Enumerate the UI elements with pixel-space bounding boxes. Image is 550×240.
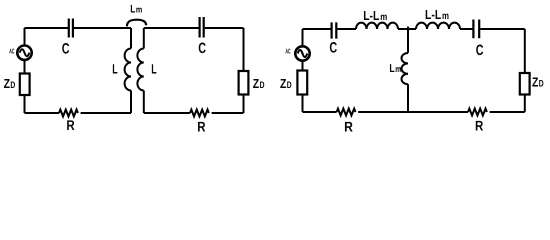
capacitor C (loop2 top)	[200, 17, 204, 38]
svg-text:D: D	[287, 80, 292, 91]
AC source V2 circle	[295, 46, 309, 60]
inductor L-Lm (series, left)	[356, 23, 398, 29]
inductor Lm (shunt)	[401, 53, 408, 84]
wire right side upper (right circuit)	[524, 29, 526, 73]
wire bottom middle segment (right circuit)	[358, 111, 468, 113]
svg-text:Z: Z	[280, 76, 286, 91]
svg-text:AC: AC	[9, 49, 14, 56]
resistor R (T-model right)	[468, 109, 487, 116]
wire left side lower (right circuit)	[302, 95, 304, 113]
wire right side lower (right circuit)	[524, 95, 526, 113]
wire loop2 left side lower	[143, 91, 145, 114]
svg-text:L: L	[389, 63, 394, 75]
wire loop1 left side lower	[24, 95, 26, 113]
mutual coupling arc Lm	[127, 20, 146, 27]
wire loop1 left side upper	[24, 28, 26, 46]
wire left side upper (right circuit)	[302, 29, 304, 47]
svg-text:D: D	[10, 80, 15, 91]
svg-text:L-L: L-L	[425, 7, 441, 22]
node T-junction top / shunt wire upper	[407, 27, 409, 53]
wire coil2 to cap4	[460, 28, 473, 30]
svg-text:L: L	[130, 4, 135, 16]
wire cap3 to coil1	[337, 28, 356, 30]
impedance box ZD (T-model right)	[520, 73, 530, 95]
resistor R (loop1)	[59, 110, 78, 117]
inductor L (loop2 left, secondary winding)	[137, 49, 143, 91]
capacitor C (loop1 top)	[69, 19, 73, 38]
wire cap4 to right corner	[480, 28, 525, 30]
capacitor C (T-model left)	[332, 22, 337, 38]
svg-text:m: m	[380, 12, 387, 23]
inductor L (loop1 right, primary winding)	[125, 49, 131, 91]
svg-text:m: m	[136, 5, 142, 15]
AC source V1 circle	[17, 46, 31, 60]
svg-text:D: D	[539, 78, 544, 89]
wire loop2 top right	[205, 27, 244, 29]
wire source to box (loop1 left)	[24, 59, 26, 73]
svg-text:AC: AC	[285, 49, 290, 56]
svg-text:C: C	[476, 42, 484, 59]
svg-text:m: m	[442, 11, 449, 22]
svg-text:R: R	[66, 117, 74, 133]
wire bottom right segment (right circuit)	[490, 111, 525, 113]
svg-text:Z: Z	[532, 74, 538, 89]
svg-text:m: m	[395, 64, 401, 74]
svg-text:Z: Z	[4, 76, 10, 91]
svg-text:C: C	[62, 41, 70, 58]
capacitor C (T-model right)	[473, 20, 479, 39]
svg-text:R: R	[475, 118, 483, 134]
svg-text:C: C	[329, 40, 337, 57]
wire top left of cap3	[303, 28, 332, 30]
wire top-left loop1 horizontal	[25, 27, 69, 29]
resistor R (T-model left)	[337, 109, 356, 116]
svg-text:L-L: L-L	[363, 8, 379, 23]
wire bottom left segment (right circuit)	[303, 111, 337, 113]
svg-text:Z: Z	[253, 76, 259, 91]
svg-text:D: D	[260, 80, 265, 91]
AC source V1 sine	[20, 49, 30, 56]
svg-text:L: L	[151, 62, 156, 77]
svg-text:L: L	[112, 62, 117, 77]
wire loop1 right side lower	[130, 91, 132, 114]
svg-text:C: C	[198, 40, 206, 57]
impedance box ZD (T-model left)	[297, 71, 307, 95]
svg-text:R: R	[344, 119, 353, 135]
wire loop1 bottom left	[25, 112, 60, 114]
impedance box ZD (loop1 left)	[20, 74, 30, 96]
wire loop2 top left	[144, 27, 199, 29]
wire source to box (right circuit left)	[302, 61, 304, 71]
wire loop1 right side upper	[130, 28, 132, 49]
shunt wire lower	[407, 84, 409, 112]
wire loop1 top right of cap	[74, 27, 131, 29]
wire loop2 bottom right	[212, 112, 244, 114]
wire coil1 to coil2 through node	[398, 28, 416, 30]
wire loop1 bottom right	[81, 112, 131, 114]
wire loop2 left side upper	[143, 28, 145, 49]
wire loop2 bottom left	[144, 112, 190, 114]
inductor L-Lm (series, right)	[416, 23, 460, 29]
AC source V2 sine	[298, 50, 308, 57]
svg-text:R: R	[197, 119, 205, 135]
impedance box ZD (loop2 right)	[239, 71, 249, 95]
wire loop2 right side upper	[243, 28, 245, 71]
resistor R (loop2)	[190, 110, 209, 117]
wire loop2 right side lower	[243, 95, 245, 114]
